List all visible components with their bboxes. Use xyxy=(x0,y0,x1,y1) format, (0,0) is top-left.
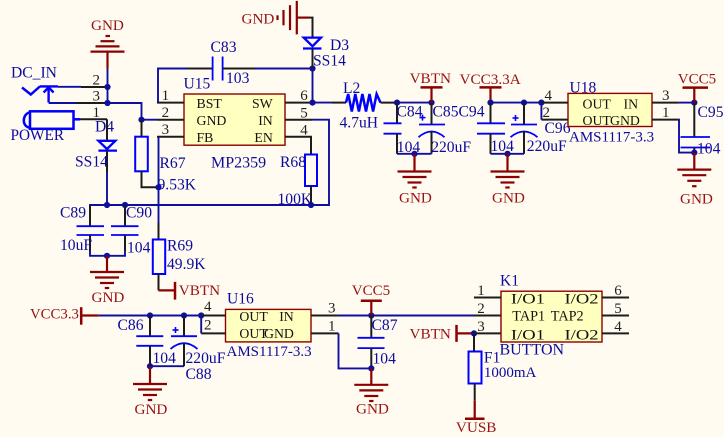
svg-text:4: 4 xyxy=(545,88,553,104)
power port GND group2 xyxy=(491,154,525,207)
svg-text:VCC5: VCC5 xyxy=(352,283,390,299)
svg-text:OUT: OUT xyxy=(239,309,268,324)
svg-text:I/O2: I/O2 xyxy=(565,292,599,308)
U16 pin 1 xyxy=(311,318,339,334)
capacitor C86 xyxy=(118,316,177,368)
U15 pin 6 SW xyxy=(285,88,313,104)
U18 pin 1 xyxy=(652,105,679,121)
svg-text:C86: C86 xyxy=(118,317,144,334)
svg-text:VBTN: VBTN xyxy=(410,70,451,87)
U15 pin 1 xyxy=(157,88,184,104)
svg-text:C84: C84 xyxy=(397,103,423,120)
wire U18 pin1 down xyxy=(679,120,695,153)
svg-text:U16: U16 xyxy=(227,291,254,308)
K1 pin 3 xyxy=(474,319,501,335)
chip U16 xyxy=(226,291,312,361)
capacitor C94 xyxy=(477,103,514,156)
junction VCC5/C87 xyxy=(368,312,374,318)
junction R67 top xyxy=(138,117,144,123)
svg-text:EN: EN xyxy=(254,130,272,145)
svg-text:4.7uH: 4.7uH xyxy=(340,115,379,132)
svg-text:R69: R69 xyxy=(167,238,193,255)
svg-text:GND: GND xyxy=(680,191,713,208)
wire L2 to C84 xyxy=(381,102,398,104)
svg-text:9.53K: 9.53K xyxy=(158,177,197,194)
svg-text:5: 5 xyxy=(614,301,622,317)
power port GND under C86 xyxy=(133,366,167,418)
U16 pin 2 xyxy=(201,318,225,334)
svg-text:FB: FB xyxy=(197,130,214,145)
svg-text:1000mA: 1000mA xyxy=(484,365,537,381)
svg-text:GND: GND xyxy=(92,289,125,306)
svg-text:IN: IN xyxy=(258,113,273,128)
resistor R68 xyxy=(278,137,318,208)
wire GND to D3 xyxy=(312,18,314,38)
svg-text:VBTN: VBTN xyxy=(410,326,451,343)
wire pin2 to pin3 xyxy=(107,87,109,103)
power port VBTN bottom xyxy=(410,325,475,343)
power port GND under C87 xyxy=(354,368,389,417)
capacitor C89 xyxy=(60,205,104,255)
svg-text:C94: C94 xyxy=(459,103,485,120)
svg-text:DC_IN: DC_IN xyxy=(11,65,57,82)
junction C86 gnd xyxy=(147,363,153,369)
svg-text:C89: C89 xyxy=(60,205,86,222)
svg-text:5: 5 xyxy=(300,105,308,121)
power port GND top-left xyxy=(91,17,125,69)
wire R67 junction to U15 pin2 xyxy=(142,119,158,121)
svg-text:C95: C95 xyxy=(698,104,724,121)
svg-text:2: 2 xyxy=(477,301,485,317)
K1 pin 2 xyxy=(474,301,501,317)
svg-text:D4: D4 xyxy=(95,119,114,136)
svg-text:2: 2 xyxy=(543,105,551,121)
svg-text:1: 1 xyxy=(662,105,670,121)
svg-text:GND: GND xyxy=(610,113,640,128)
junction F1/K1 pin3 xyxy=(471,330,477,336)
svg-text:VCC3.3A: VCC3.3A xyxy=(460,71,521,88)
capacitor C88 xyxy=(171,316,226,384)
svg-text:GND: GND xyxy=(264,326,294,341)
svg-text:104: 104 xyxy=(491,138,515,155)
junction C89/C90 gnd xyxy=(104,253,110,259)
svg-text:SS14: SS14 xyxy=(313,53,346,70)
junction VCC5/C95 xyxy=(691,100,697,106)
diode D4 xyxy=(75,119,117,206)
wire C89/C90 bottom xyxy=(90,251,125,256)
power port GND right xyxy=(677,153,713,208)
capacitor C84 xyxy=(384,103,423,156)
svg-text:C83: C83 xyxy=(211,39,237,56)
wire D3 to SW node xyxy=(312,49,314,69)
svg-text:IN: IN xyxy=(624,96,639,111)
svg-text:4: 4 xyxy=(204,299,212,315)
power port VCC3.3 xyxy=(30,307,99,325)
svg-text:3: 3 xyxy=(162,122,170,138)
wire U16 pin1 down xyxy=(339,333,372,368)
svg-text:R67: R67 xyxy=(160,155,186,172)
U15 pin 4 EN xyxy=(285,122,312,138)
chip K1 xyxy=(500,273,603,359)
connector POWER xyxy=(11,105,108,144)
svg-text:MP2359: MP2359 xyxy=(211,155,266,172)
U15 pin 2 xyxy=(157,105,184,121)
junction C90 rail xyxy=(122,202,128,208)
power port VCC5 top xyxy=(678,71,716,102)
svg-text:220uF: 220uF xyxy=(527,138,567,155)
svg-text:4: 4 xyxy=(614,319,622,335)
svg-text:I/O2: I/O2 xyxy=(565,327,599,343)
U18 pin 2 xyxy=(541,105,568,121)
svg-text:2: 2 xyxy=(93,73,101,89)
svg-text:D3: D3 xyxy=(330,37,349,54)
svg-text:C87: C87 xyxy=(372,317,398,334)
power port VCC5 bottom xyxy=(352,283,390,316)
svg-text:3: 3 xyxy=(328,300,336,316)
svg-text:OUT: OUT xyxy=(583,96,612,111)
connector DC_IN xyxy=(11,65,108,105)
power port VBTN top xyxy=(410,70,451,103)
U15 pin 3 FB xyxy=(157,122,184,138)
junction C95 gnd xyxy=(691,150,697,156)
junction C87 gnd xyxy=(368,365,374,371)
svg-text:L2: L2 xyxy=(343,80,360,97)
svg-text:104: 104 xyxy=(127,240,151,257)
capacitor C87 xyxy=(358,316,398,369)
power port GND top (horizontal) xyxy=(242,1,314,35)
svg-text:GND: GND xyxy=(492,190,525,207)
junction C83/D3 xyxy=(309,65,315,71)
capacitor C95 xyxy=(681,103,724,158)
svg-text:GND: GND xyxy=(91,17,124,34)
svg-text:2: 2 xyxy=(162,105,170,121)
U18 pin 3 xyxy=(652,88,679,104)
wire BST riser to C83 xyxy=(158,69,187,103)
wire cap group2 bottom xyxy=(491,153,525,155)
svg-text:VCC3.3: VCC3.3 xyxy=(30,307,79,323)
svg-text:TAP2: TAP2 xyxy=(551,309,584,325)
junction C88 xyxy=(181,312,187,318)
svg-text:AMS1117-3.3: AMS1117-3.3 xyxy=(569,130,654,146)
svg-text:C96: C96 xyxy=(545,120,571,137)
svg-text:OUT: OUT xyxy=(583,113,612,128)
wire jack pin3 xyxy=(49,102,76,104)
svg-text:SS14: SS14 xyxy=(75,154,108,171)
svg-text:3: 3 xyxy=(477,319,485,335)
wire C83 to D3 anode node xyxy=(223,68,255,70)
wire VCC3.3 rail xyxy=(99,315,201,317)
svg-text:1: 1 xyxy=(477,283,485,299)
capacitor C96 xyxy=(511,103,571,156)
svg-text:103: 103 xyxy=(226,70,250,87)
svg-text:BST: BST xyxy=(197,96,223,111)
fuse F1 xyxy=(469,333,537,400)
wire riser to U16 pin2 xyxy=(200,316,202,334)
power port GND under C89 xyxy=(90,256,124,306)
svg-text:GND: GND xyxy=(135,401,168,418)
junction C86 xyxy=(147,312,153,318)
wire U18 pin3 to VCC5 xyxy=(679,102,695,104)
power port VBTN at R69 xyxy=(159,282,221,300)
wire C84 to VBTN/C85 xyxy=(397,102,432,104)
junction pin3 xyxy=(104,100,110,106)
svg-text:1: 1 xyxy=(162,88,170,104)
svg-text:104: 104 xyxy=(373,351,397,368)
capacitor C83 xyxy=(211,39,250,87)
svg-text:1: 1 xyxy=(328,318,336,334)
junction FB / R67 xyxy=(155,184,161,190)
svg-text:VBTN: VBTN xyxy=(179,282,220,299)
svg-text:GND: GND xyxy=(399,190,432,207)
svg-text:SW: SW xyxy=(252,96,273,111)
svg-text:220uF: 220uF xyxy=(431,139,471,156)
wire FB down xyxy=(158,137,160,223)
svg-text:F1: F1 xyxy=(484,350,500,367)
resistor R69 xyxy=(153,238,206,291)
junction VBTN/C85 xyxy=(428,100,434,106)
wire GND to DC_IN pin2 xyxy=(107,69,109,88)
inductor L2 xyxy=(340,80,381,132)
U15 pin 5 IN xyxy=(285,105,312,121)
svg-text:6: 6 xyxy=(614,283,622,299)
junction R68 bottom xyxy=(308,202,314,208)
svg-text:104: 104 xyxy=(153,350,177,367)
svg-text:BUTTON: BUTTON xyxy=(500,342,565,359)
svg-text:3: 3 xyxy=(93,89,101,105)
power port GND group1 xyxy=(398,154,432,207)
svg-text:GND: GND xyxy=(356,400,389,417)
wire C86/C88 bottom xyxy=(150,365,184,367)
power port VCC3.3A xyxy=(460,71,521,103)
junction C96 xyxy=(521,100,527,106)
K1 pin 5 xyxy=(602,301,629,317)
svg-text:6: 6 xyxy=(300,88,308,104)
svg-text:C90: C90 xyxy=(126,205,152,222)
diode D3 xyxy=(303,37,349,70)
svg-text:U15: U15 xyxy=(184,76,211,93)
power port VUSB xyxy=(456,401,497,436)
resistor R67 xyxy=(135,120,197,194)
svg-text:GND: GND xyxy=(242,11,275,28)
svg-text:220uF: 220uF xyxy=(186,350,226,367)
svg-text:C85: C85 xyxy=(433,103,459,120)
junction C84 xyxy=(394,100,400,106)
svg-text:K1: K1 xyxy=(500,273,519,290)
chip U15 xyxy=(184,76,286,172)
wire IN loop from pin5 xyxy=(90,120,329,227)
junction SW xyxy=(309,100,315,106)
junction group2 gnd xyxy=(504,151,510,157)
wire riser to U18 pin2 xyxy=(540,103,542,120)
svg-text:IN: IN xyxy=(279,309,294,324)
svg-text:TAP1: TAP1 xyxy=(512,309,545,325)
K1 pin 4 xyxy=(602,319,629,335)
wire U16 pin3 to K1 pin2 xyxy=(339,315,475,317)
svg-text:VUSB: VUSB xyxy=(456,419,497,436)
svg-text:I/O1: I/O1 xyxy=(511,292,545,308)
junction pin2 xyxy=(104,84,110,90)
capacitor C90 xyxy=(111,205,152,257)
junction group1 gnd xyxy=(411,151,417,157)
wire cap group1 bottom xyxy=(397,153,432,155)
U16 pin 3 xyxy=(311,300,339,316)
chip U18 xyxy=(568,79,654,145)
wire SW to L2 xyxy=(313,102,333,104)
K1 pin 6 xyxy=(602,283,629,299)
svg-text:2: 2 xyxy=(204,318,212,334)
junction U18 riser xyxy=(538,100,544,106)
wire pin3 to R67 column xyxy=(108,103,142,120)
U16 pin 4 xyxy=(201,299,225,315)
svg-text:R68: R68 xyxy=(280,154,306,171)
junction D4 rail xyxy=(104,202,110,208)
junction VCC3.3A/C94 xyxy=(487,100,493,106)
svg-text:VCC5: VCC5 xyxy=(678,71,716,87)
junction U16 riser xyxy=(198,312,204,318)
wire jack pin2 xyxy=(58,86,81,88)
svg-text:C88: C88 xyxy=(186,366,212,383)
svg-text:3: 3 xyxy=(662,88,670,104)
svg-text:AMS1117-3.3: AMS1117-3.3 xyxy=(227,344,312,360)
svg-text:104: 104 xyxy=(697,141,721,158)
svg-text:GND: GND xyxy=(197,113,227,128)
svg-text:4: 4 xyxy=(300,122,308,138)
svg-text:49.9K: 49.9K xyxy=(167,256,206,273)
svg-text:10uF: 10uF xyxy=(60,237,92,254)
capacitor C85 xyxy=(419,103,472,156)
wire VCC3.3A rail xyxy=(491,102,542,104)
K1 pin 1 xyxy=(474,283,501,299)
U18 pin 4 xyxy=(541,88,568,104)
